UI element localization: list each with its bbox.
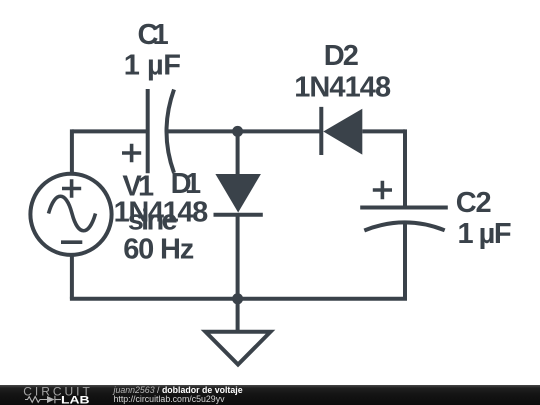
svg-text:1N4148: 1N4148: [114, 197, 209, 229]
svg-text:1 µF: 1 µF: [458, 218, 512, 250]
svg-text:D1: D1: [171, 168, 202, 200]
svg-text:1 µF: 1 µF: [124, 50, 181, 82]
svg-text:C2: C2: [456, 187, 492, 219]
svg-text:60 Hz: 60 Hz: [123, 234, 194, 266]
svg-text:D2: D2: [324, 40, 359, 72]
svg-text:1N4148: 1N4148: [294, 71, 391, 103]
svg-text:C1: C1: [138, 19, 169, 51]
